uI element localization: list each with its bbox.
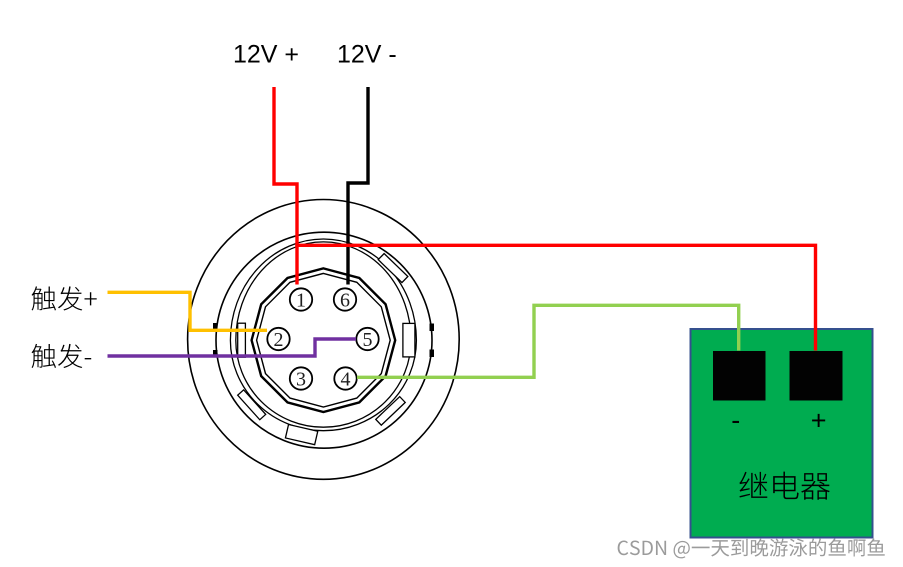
svg-text:6: 6 — [340, 289, 350, 311]
svg-text:3: 3 — [296, 368, 306, 390]
svg-text:1: 1 — [296, 289, 306, 311]
svg-text:4: 4 — [341, 368, 351, 390]
svg-text:-: - — [731, 405, 740, 435]
svg-text:5: 5 — [363, 329, 373, 351]
svg-text:2: 2 — [274, 329, 284, 351]
svg-text:+: + — [811, 406, 827, 436]
svg-text:12V -: 12V - — [337, 41, 397, 69]
svg-text:12V +: 12V + — [233, 41, 299, 69]
